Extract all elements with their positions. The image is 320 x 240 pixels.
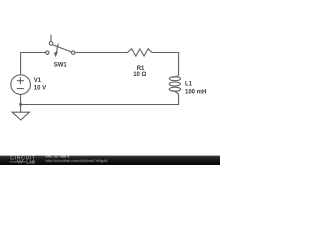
watermark bar: [0, 156, 220, 165]
svg-text:LAB: LAB: [26, 160, 35, 165]
switch SW1: [46, 35, 75, 57]
svg-text:http://circuitlab.com/c5d4bbk7: http://circuitlab.com/c5d4bbk7h5fg4d: [46, 159, 108, 163]
resistor R1: [128, 49, 153, 57]
voltage source V1: [11, 75, 31, 95]
wire: V1 top up and across to SW1 left terminal: [21, 53, 46, 75]
svg-text:10 V: 10 V: [34, 86, 46, 92]
wire: R1 to top-right corner down to inductor L1: [152, 53, 178, 75]
svg-text:10 Ω: 10 Ω: [133, 72, 146, 78]
svg-text:SW1: SW1: [54, 62, 68, 68]
node: junction of V1, bottom wire and ground: [19, 103, 22, 106]
svg-text:V1: V1: [34, 78, 42, 84]
svg-text:em778 / lab 4: em778 / lab 4: [46, 154, 71, 158]
wire: SW1 right terminal to resistor R1: [75, 52, 128, 54]
svg-text:L1: L1: [185, 81, 193, 87]
svg-text:100 mH: 100 mH: [185, 89, 206, 95]
ground: [12, 105, 29, 121]
inductor L1: [169, 74, 180, 96]
wire: L1 bottom to bottom-right corner and across to ground node: [21, 96, 179, 105]
wire: V1 bottom to ground node: [20, 95, 22, 105]
